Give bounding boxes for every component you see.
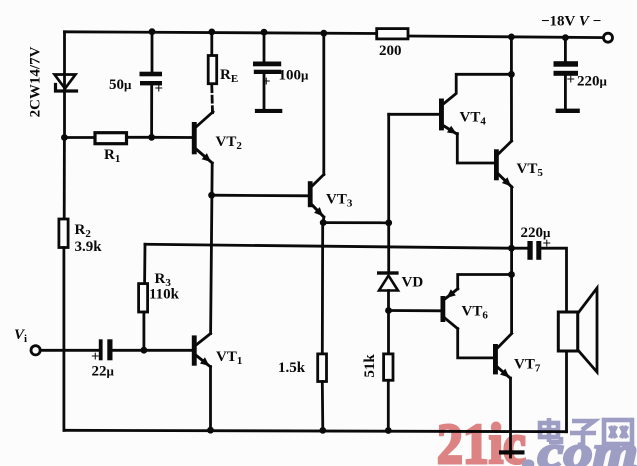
wire left vertical from rail to zener: [63, 32, 66, 89]
wire zener cathode to node A: [63, 91, 66, 138]
transistor Q VT6: [441, 275, 512, 358]
wire 50u bottom to node B: [150, 85, 153, 137]
capacitor C 220u supply: [554, 61, 579, 76]
wire rail to 100u capacitor: [263, 32, 266, 61]
wire top rail left segment: [65, 32, 378, 34]
terminal bar of supply 220u: [556, 109, 580, 113]
wire VT3 emitter stub: [322, 217, 325, 223]
terminal bar of 100u: [255, 109, 282, 113]
node dot 100u top on rail: [261, 29, 268, 36]
diode VD: [377, 271, 399, 290]
svg-text:110k: 110k: [149, 287, 180, 303]
wire VT4 base corner down x389: [387, 114, 390, 271]
svg-text:VD: VD: [402, 275, 424, 291]
node C (VT2 emitter / VT3 base / VT1 collector): [208, 192, 215, 199]
transistor Q VT7: [493, 334, 512, 379]
wire supply 220u to terminal bar: [564, 76, 567, 109]
node dot 50u top on rail: [149, 28, 156, 35]
wire VT5 emitter down to VT7 collector: [510, 187, 513, 333]
resistor RE: [208, 56, 217, 84]
capacitor C 22u: [99, 339, 113, 360]
resistor R1: [95, 133, 127, 144]
transistor Q VT2: [192, 112, 213, 163]
ground: [499, 450, 525, 457]
resistor 200: [377, 29, 408, 39]
wire node D to node E: [323, 221, 389, 224]
wire VT3 collector to rail: [322, 33, 325, 174]
svg-text:200: 200: [379, 43, 402, 59]
wire VT2 emitter down to VT1 collector: [211, 163, 213, 334]
svg-text:3.9k: 3.9k: [75, 239, 103, 255]
wire R3 bottom to input node: [142, 312, 145, 350]
wire top rail right segment: [408, 36, 604, 38]
terminal Vi input: [31, 346, 40, 355]
wire rail to supply 220u: [564, 38, 567, 62]
node G (output node at 220u): [508, 245, 515, 252]
wire R3 top corner down: [143, 244, 146, 283]
resistor R3: [139, 284, 148, 312]
transistor Q VT3: [308, 175, 324, 218]
svg-text:21ic: 21ic: [437, 413, 526, 466]
svg-text:100μ: 100μ: [279, 68, 310, 84]
node I (VD / VT6 base / 51k): [385, 307, 392, 314]
svg-text:+: +: [262, 74, 271, 90]
terminal -18V output: [604, 33, 613, 42]
node J (R3 / VT1 base / 22u): [141, 347, 148, 354]
svg-text:+: +: [543, 236, 552, 252]
wire node A to R1: [64, 136, 97, 139]
svg-text:+: +: [567, 72, 576, 88]
transistor Q VT1: [192, 334, 211, 367]
capacitor C 50u: [140, 72, 163, 86]
wire rail to 50u capacitor: [151, 32, 154, 72]
wire 220u to speaker top: [541, 248, 566, 312]
node dot 1.5k on bottom rail: [319, 427, 326, 434]
wire node I to VT6 base: [389, 309, 441, 312]
wire feedback from R3 top to output node: [145, 244, 512, 248]
node dot VT3 collector on rail: [320, 30, 327, 37]
wire node A down to R2: [63, 138, 66, 220]
wire VT7 emitter to ground: [509, 378, 512, 451]
capacitor C 100u: [253, 62, 281, 75]
svg-text:2CW14/7V: 2CW14/7V: [28, 46, 44, 117]
svg-text:.com: .com: [523, 427, 637, 466]
resistor 1.5k: [318, 354, 327, 382]
wire node D down to 1.5k: [321, 223, 324, 354]
node E (x389 vertical at VT3 emitter wire): [385, 219, 392, 226]
wire bottom rail: [64, 430, 567, 431]
wire Vi to 22u: [40, 349, 99, 352]
wire output node to 220u coupling cap: [512, 247, 528, 250]
wire dashed RE to VT2 collector: [210, 86, 213, 113]
resistor R2: [59, 219, 68, 248]
node dot VT1 emitter on bottom rail: [207, 427, 214, 434]
wire rail to VT5 collector: [510, 37, 513, 141]
wire R1 to node B: [127, 136, 152, 139]
wire speaker bottom to rail: [565, 351, 568, 432]
svg-text:−18V V −: −18V V −: [541, 14, 601, 30]
zener diode 2CW14/7V: [55, 75, 77, 92]
transistor Q VT5: [494, 141, 512, 187]
wire R2 bottom to bottom rail: [63, 248, 66, 431]
node F (VT4 collector on x511 vertical): [508, 71, 515, 78]
watermark: [437, 413, 637, 466]
capacitor C 220u coupling: [527, 241, 541, 260]
node dot 51k on bottom rail: [385, 427, 392, 434]
wire rail to RE: [210, 32, 213, 56]
node dot x511 on rail: [508, 34, 515, 41]
svg-text:+: +: [155, 81, 164, 97]
wire 51k to bottom rail: [387, 380, 390, 430]
transistor Q VT4: [439, 74, 511, 163]
node H (VT6 collector junction): [508, 271, 515, 278]
node A (zener / R1 / R2 junction): [61, 134, 68, 141]
svg-text:50μ: 50μ: [109, 77, 132, 93]
node B (R1 / 50u / VT2 base junction): [148, 134, 155, 141]
speaker: [558, 288, 597, 372]
svg-text:22μ: 22μ: [92, 364, 115, 380]
wire VT1 emitter to bottom rail: [209, 367, 212, 431]
node dot RE top on rail: [208, 29, 215, 36]
wire 100u bottom to terminal bar: [263, 74, 266, 109]
svg-text:51k: 51k: [362, 354, 378, 378]
wire 22u to VT1 base: [113, 349, 192, 352]
wire 1.5k to bottom rail: [321, 382, 324, 431]
svg-text:1.5k: 1.5k: [278, 360, 306, 376]
node dot supply cap on rail: [562, 34, 569, 41]
wire node B to VT2 base: [152, 136, 192, 139]
node D (VT3 emitter): [320, 219, 327, 226]
wire VD to 51k with node: [387, 291, 390, 354]
resistor 51k: [384, 354, 393, 380]
svg-text:220μ: 220μ: [577, 74, 608, 90]
wire node C to VT3 base: [212, 194, 308, 197]
wire VT4 base horizontal: [389, 113, 439, 116]
